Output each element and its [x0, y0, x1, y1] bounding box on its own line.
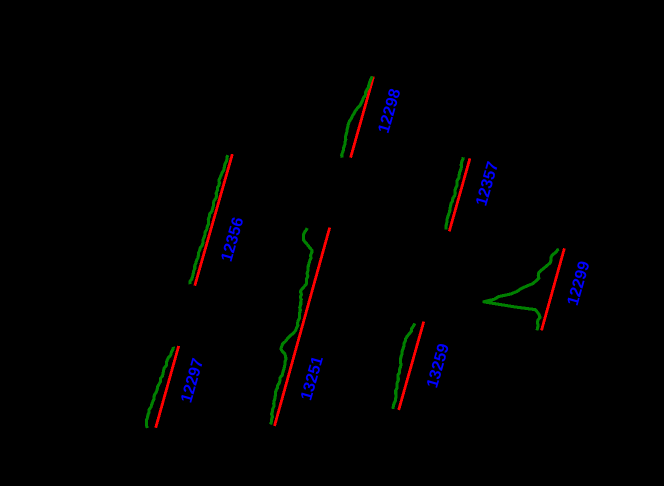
red line 12299	[542, 248, 565, 330]
red line 12298	[351, 77, 374, 158]
green spectrum 12298	[342, 76, 372, 158]
green spectrum 12297	[146, 347, 173, 428]
green spectrum 12299	[484, 249, 559, 330]
green spectrum 12357	[446, 157, 463, 229]
green spectrum 13259	[393, 324, 415, 409]
red line 12356	[195, 154, 233, 286]
red line 13251	[275, 228, 330, 426]
red line 13259	[399, 322, 424, 411]
green spectrum 12356	[190, 155, 228, 284]
red line 12357	[449, 158, 470, 231]
green spectrum 13251	[271, 228, 312, 424]
red line 12297	[156, 346, 179, 428]
